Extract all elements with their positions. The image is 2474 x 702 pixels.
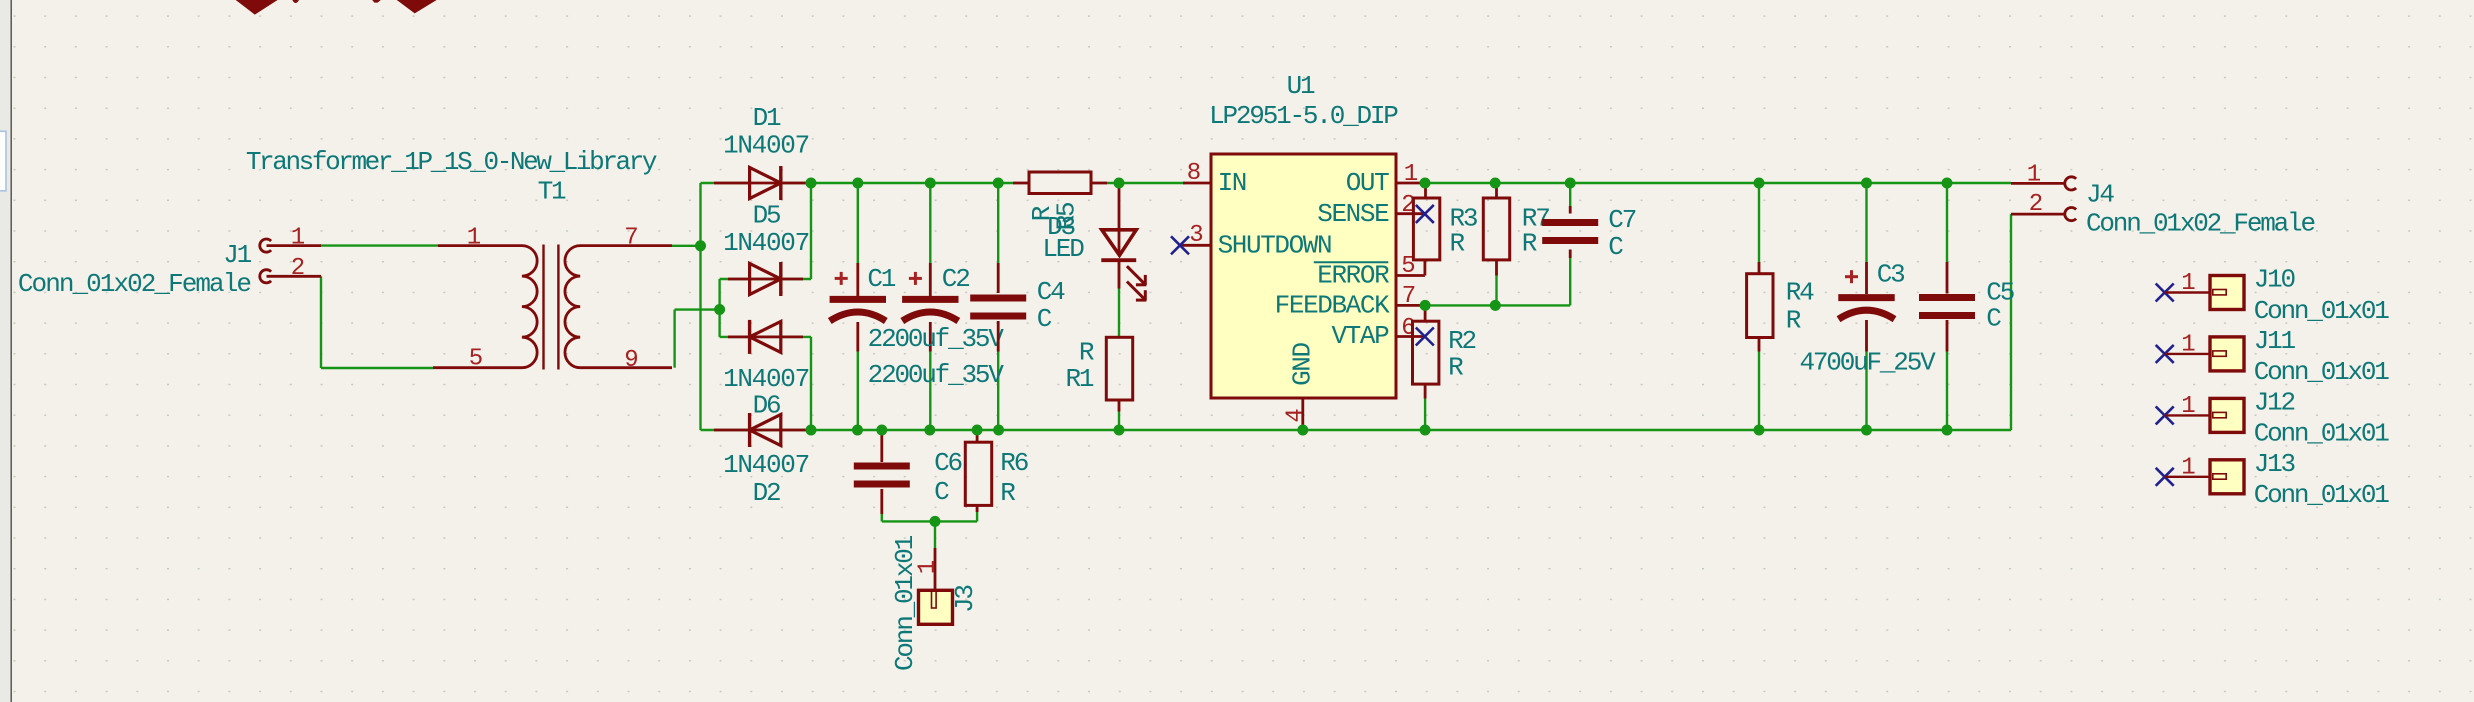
svg-text:R4: R4: [1786, 278, 1814, 308]
connector J11 no-connect X: [2156, 345, 2174, 363]
svg-text:Conn_01x01: Conn_01x01: [890, 535, 920, 671]
ic U1 pin 2 stub: [1396, 212, 1425, 215]
connector J1 pin 2 stub: [267, 275, 322, 278]
svg-text:1: 1: [2181, 270, 2195, 297]
wire D1 anode: [701, 182, 750, 184]
connector J13 square: [2210, 460, 2244, 494]
led D3: [1118, 186, 1121, 255]
cut-off red glyph 1: [236, 0, 278, 15]
capacitor C3: [1865, 262, 1868, 294]
junction top rail: [993, 178, 1004, 189]
wire D7 row: [720, 336, 811, 338]
svg-text:5: 5: [469, 346, 482, 373]
connector J4 pin 1 stub: [2011, 182, 2066, 185]
svg-text:J13: J13: [2254, 449, 2295, 479]
svg-text:J12: J12: [2254, 387, 2295, 417]
svg-text:C: C: [1037, 304, 1052, 334]
junction bottom rail: [924, 425, 935, 436]
junction feedback R2: [1420, 300, 1431, 311]
resistor R1: [1106, 337, 1132, 400]
junction top rail: [1861, 178, 1872, 189]
ic U1 pin 7 stub: [1396, 304, 1425, 307]
svg-text:8: 8: [1187, 160, 1200, 187]
svg-text:9: 9: [624, 347, 637, 374]
junction top rail: [1420, 178, 1431, 189]
connector J4 pin 2 stub: [2011, 213, 2066, 216]
svg-text:C3: C3: [1877, 260, 1904, 290]
wire C3 bottom: [1865, 352, 1867, 431]
svg-text:R1: R1: [1065, 364, 1093, 394]
junction top rail: [806, 178, 817, 189]
svg-text:7: 7: [624, 225, 637, 252]
wire C3 top: [1865, 183, 1867, 262]
connector J12 pin stub: [2165, 414, 2213, 416]
svg-text:1: 1: [2027, 162, 2041, 189]
svg-text:FEEDBACK: FEEDBACK: [1275, 290, 1390, 320]
resistor R4: [1758, 262, 1761, 274]
wire C2 top: [929, 183, 931, 263]
svg-text:J3: J3: [950, 586, 980, 613]
svg-text:1: 1: [2181, 454, 2195, 481]
capacitor C6: [880, 430, 883, 462]
wire top rail left: [781, 182, 1013, 184]
junction bottom rail: [972, 425, 983, 436]
svg-text:Conn_01x02_Female: Conn_01x02_Female: [18, 269, 250, 299]
svg-text:1N4007: 1N4007: [723, 131, 809, 161]
diode D5: [728, 278, 803, 281]
svg-text:Conn_01x01: Conn_01x01: [2254, 357, 2390, 387]
connector J4 pin 2 hook: [2065, 208, 2076, 221]
connector J1 pin 1 stub: [267, 244, 322, 247]
svg-text:R: R: [1450, 229, 1465, 259]
left panel highlight box: [0, 131, 6, 191]
ic U1 pin 6 stub: [1396, 335, 1425, 338]
svg-text:T1: T1: [538, 177, 566, 207]
resistor R6: [976, 430, 979, 442]
svg-text:1: 1: [1404, 161, 1418, 188]
ic U1 pin 3 stub: [1181, 244, 1211, 247]
no-connect pin 3: [1171, 236, 1189, 254]
label C1 plus: [835, 277, 848, 280]
junction top rail: [1754, 178, 1765, 189]
diode D2: [714, 429, 808, 432]
wire C6 link: [881, 512, 883, 521]
ic U1 body: [1211, 154, 1396, 398]
svg-text:1N4007: 1N4007: [723, 364, 809, 394]
connector J3 stub: [934, 548, 937, 591]
junction bottom rail: [993, 425, 1004, 436]
svg-text:7: 7: [1402, 283, 1415, 310]
connector J4 pin 1 hook: [2065, 177, 2076, 190]
svg-text:Conn_01x01: Conn_01x01: [2254, 419, 2390, 449]
wire feedback rail: [1425, 304, 1570, 306]
svg-text:GND: GND: [1288, 342, 1318, 385]
svg-text:U1: U1: [1287, 71, 1315, 101]
svg-text:D2: D2: [753, 478, 780, 508]
junction top rail: [1114, 178, 1125, 189]
junction bottom rail: [1114, 425, 1125, 436]
led D3 arrows: [1127, 266, 1145, 284]
wire C1 top: [857, 183, 859, 263]
junction bottom rail: [1420, 425, 1431, 436]
connector J3 square: [919, 590, 953, 624]
wire R6 bottom link: [976, 508, 978, 521]
svg-text:SENSE: SENSE: [1317, 199, 1389, 229]
svg-text:1N4007: 1N4007: [723, 228, 809, 258]
wire T1 pin9 up: [673, 310, 675, 368]
wire C4 top: [997, 183, 999, 263]
transformer T1 secondary winding: [565, 246, 672, 368]
ic U1 pin 5 stub: [1396, 274, 1425, 277]
canvas left border line: [10, 0, 12, 702]
svg-text:ERROR: ERROR: [1317, 260, 1389, 290]
wire J3 drop: [934, 521, 936, 548]
svg-text:C7: C7: [1608, 205, 1635, 235]
wire top rail right: [1425, 182, 2011, 184]
wire T1 pin7 to AC1 node: [672, 245, 701, 247]
capacitor C2: [929, 263, 932, 296]
wire C5 top: [1946, 183, 1948, 262]
svg-text:R6: R6: [1000, 448, 1027, 478]
svg-text:VTAP: VTAP: [1331, 321, 1389, 351]
no-connect pin 2: [1416, 205, 1434, 223]
wire T1 pin9 to AC2 node: [675, 308, 720, 310]
capacitor C5: [1946, 262, 1949, 294]
svg-text:R2: R2: [1448, 326, 1475, 356]
connector J13 pin stub: [2165, 476, 2213, 478]
junction bottom rail: [876, 425, 887, 436]
wire J1 pin1 to T1 pin1: [320, 244, 438, 246]
junction top rail: [925, 178, 936, 189]
wire bottom rail: [701, 429, 2012, 431]
svg-text:4700uF_25V: 4700uF_25V: [1799, 347, 1936, 377]
cut-off red glyph 4: [397, 0, 437, 13]
wire C2 bottom: [929, 352, 931, 431]
connector J12 square: [2210, 398, 2244, 432]
junction bottom rail: [1297, 425, 1308, 436]
label C2 plus: [909, 277, 922, 280]
wire C7 top: [1569, 183, 1571, 206]
resistor R5: [1013, 182, 1029, 185]
capacitor C1: [856, 263, 859, 296]
svg-text:R: R: [1786, 306, 1801, 336]
svg-text:J10: J10: [2254, 265, 2295, 295]
junction J3 node: [930, 516, 941, 527]
svg-text:Conn_01x01: Conn_01x01: [2254, 480, 2390, 510]
svg-text:D1: D1: [753, 103, 781, 133]
connector J1 pin 2 hook: [260, 270, 271, 283]
connector J11 square: [2210, 337, 2244, 371]
svg-text:2200uf_35V: 2200uf_35V: [868, 324, 1005, 354]
junction top rail: [852, 178, 863, 189]
svg-text:C6: C6: [934, 448, 961, 478]
junction top rail: [1942, 178, 1953, 189]
wire R4 bottom: [1758, 352, 1760, 431]
wire R7 bottom: [1495, 276, 1497, 306]
junction bottom rail: [806, 425, 817, 436]
svg-text:1: 1: [467, 225, 481, 252]
wire C7 bottom: [1569, 258, 1571, 305]
connector J1 pin 1 hook: [260, 239, 271, 252]
connector J13 no-connect X: [2156, 468, 2174, 486]
wire D3 to R1: [1118, 262, 1120, 338]
svg-text:D5: D5: [753, 201, 780, 231]
connector J11 pin stub: [2165, 353, 2213, 355]
wire C1 bottom: [857, 352, 859, 431]
wire AC2 vertical: [718, 279, 720, 337]
svg-text:1N4007: 1N4007: [723, 450, 809, 480]
svg-text:C: C: [1986, 304, 2001, 334]
wire J1 pin2 to T1 pin5: [321, 367, 433, 369]
transformer T1 core: [542, 245, 544, 370]
svg-text:2200uf_35V: 2200uf_35V: [868, 360, 1005, 390]
junction top rail: [1565, 178, 1576, 189]
capacitor C4: [997, 263, 1000, 293]
junction bottom rail: [1942, 425, 1953, 436]
svg-text:R: R: [1522, 229, 1537, 259]
svg-text:1: 1: [2181, 393, 2195, 420]
svg-text:1: 1: [2181, 331, 2195, 358]
junction bottom rail: [1861, 425, 1872, 436]
label C3 plus: [1845, 275, 1858, 278]
ic U1 pin 4 stub: [1301, 398, 1304, 430]
svg-text:IN: IN: [1218, 168, 1246, 198]
wire C6 to R6 link: [882, 520, 977, 522]
wire J1 pin2 drop: [320, 276, 322, 368]
left toolbar strip: [0, 0, 10, 702]
svg-text:C1: C1: [867, 264, 895, 294]
svg-text:C: C: [1608, 232, 1623, 262]
wire R2 bottom: [1424, 399, 1426, 430]
svg-text:J1: J1: [223, 240, 251, 270]
wire D5 row: [720, 278, 811, 280]
junction T1 pin7 node: [695, 240, 706, 251]
connector J12 no-connect X: [2156, 406, 2174, 424]
wire AC1 vertical: [699, 183, 701, 430]
svg-text:2: 2: [2029, 191, 2042, 218]
svg-text:2: 2: [291, 255, 304, 282]
svg-text:3: 3: [1189, 222, 1202, 249]
svg-text:R: R: [1448, 352, 1463, 382]
wire J4 pin2 drop: [2010, 214, 2012, 430]
diode D1: [714, 182, 808, 185]
cut-off red glyph 2: [292, 0, 299, 3]
svg-text:C2: C2: [942, 264, 969, 294]
junction bottom rail: [852, 425, 863, 436]
svg-text:Conn_01x02_Female: Conn_01x02_Female: [2086, 209, 2314, 239]
wire R4 top: [1758, 183, 1760, 262]
junction bottom rail: [1754, 425, 1765, 436]
svg-text:OUT: OUT: [1346, 168, 1389, 198]
svg-text:R: R: [1000, 478, 1015, 508]
svg-text:4: 4: [1283, 409, 1310, 423]
svg-text:SHUTDOWN: SHUTDOWN: [1218, 230, 1332, 260]
svg-text:C: C: [934, 477, 949, 507]
junction T1 pin9 node: [714, 304, 725, 315]
connector J10 pin stub: [2165, 291, 2213, 293]
svg-text:LED: LED: [1042, 234, 1084, 264]
resistor R2: [1424, 305, 1427, 321]
svg-text:J11: J11: [2254, 326, 2296, 356]
wire D7 anode drop: [810, 337, 812, 430]
junction top rail: [1490, 178, 1501, 189]
svg-text:Conn_01x01: Conn_01x01: [2254, 296, 2390, 326]
svg-text:J4: J4: [2086, 180, 2114, 210]
resistor R7: [1495, 183, 1498, 198]
svg-text:1: 1: [291, 225, 305, 252]
resistor R3: [1424, 183, 1427, 198]
wire C4 bottom: [997, 352, 999, 431]
junction feedback R7: [1490, 300, 1501, 311]
wire D5 cathode riser: [810, 183, 812, 279]
svg-text:Transformer_1P_1S_0-New_Librar: Transformer_1P_1S_0-New_Library: [246, 147, 657, 177]
transformer T1 primary winding: [433, 246, 537, 368]
cut-off red glyph 3: [372, 0, 381, 3]
svg-text:R: R: [1079, 338, 1094, 368]
ic U1 pin 8 stub: [1183, 182, 1211, 185]
wire top rail mid: [1107, 182, 1185, 184]
connector J10 no-connect X: [2156, 284, 2174, 302]
diode D6: [728, 335, 803, 338]
svg-text:C4: C4: [1037, 277, 1065, 307]
svg-text:LP2951-5.0_DIP: LP2951-5.0_DIP: [1209, 101, 1398, 131]
wire R1 bottom: [1118, 412, 1120, 431]
ic U1 pin 1 stub: [1396, 182, 1425, 185]
no-connect pin 6: [1416, 328, 1434, 346]
wire C5 bottom: [1946, 352, 1948, 431]
connector J10 square: [2210, 276, 2244, 310]
capacitor C7: [1569, 206, 1572, 214]
